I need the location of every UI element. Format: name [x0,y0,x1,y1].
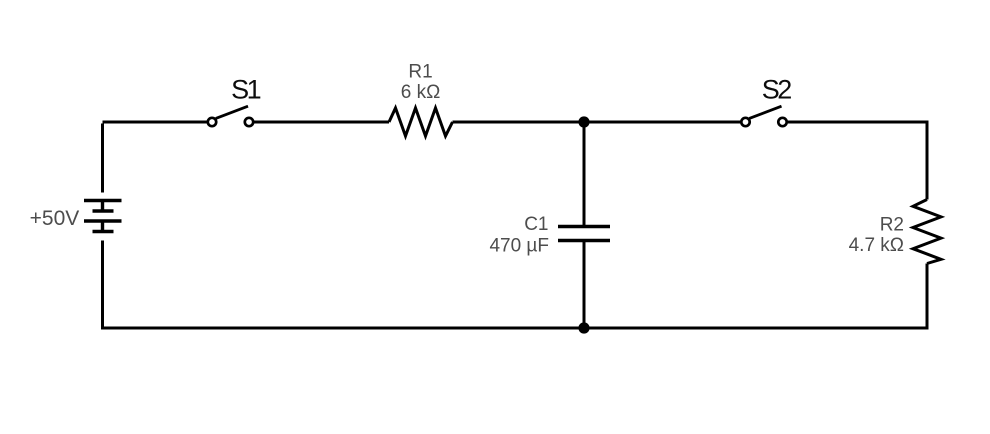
svg-text:R1: R1 [408,62,432,83]
wire top: capacitor node to switch S2 left contact [584,121,741,124]
wire right: top-right corner down to resistor R2 top lead [926,121,929,200]
svg-text:6 kΩ: 6 kΩ [401,82,441,103]
svg-text:470 µF: 470 µF [489,236,549,257]
capacitor C1 [558,122,610,328]
wire top: switch S2 right contact to top-right corner [788,121,929,124]
wire top: switch S1 right contact to resistor R1 left lead [254,121,389,124]
svg-text:+50V: +50V [30,207,80,230]
wire left: battery positive terminal up to top-left corner [101,124,104,193]
svg-text:S1: S1 [231,75,261,105]
resistor R2 [913,200,941,264]
wire right: resistor R2 bottom lead down to bottom-right corner [926,264,929,330]
wire left: bottom-left corner up to battery negative terminal [101,241,104,330]
wire bottom: bottom-right corner to bottom node and to bottom-left corner [101,327,929,330]
wire top: resistor R1 right lead to node at capacitor C1 [453,121,585,124]
node bottom junction dot at capacitor [578,322,589,333]
switch S2 [741,106,786,126]
battery V1 +50V [84,201,122,232]
resistor R1 [389,108,453,136]
svg-text:4.7 kΩ: 4.7 kΩ [849,235,904,256]
switch S1 [208,106,253,126]
node top junction dot at capacitor [578,116,589,127]
svg-text:C1: C1 [524,214,548,235]
wire top: battery positive terminal to switch S1 left contact [103,121,208,124]
svg-text:S2: S2 [762,75,792,105]
svg-text:R2: R2 [880,215,904,236]
